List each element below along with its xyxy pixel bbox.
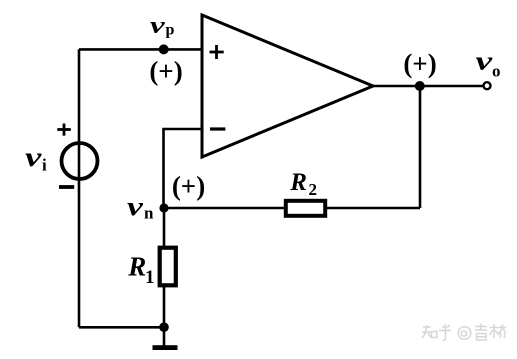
svg-text:R: R bbox=[127, 252, 146, 282]
wire bottom from source to ground node bbox=[79, 326, 164, 329]
watermark zhihu bbox=[422, 324, 506, 341]
svg-text:(+): (+) bbox=[172, 171, 205, 201]
svg-text:(+): (+) bbox=[149, 56, 182, 86]
svg-text:v: v bbox=[476, 46, 493, 75]
resistor R1 bbox=[160, 248, 176, 286]
source + polarity mark bbox=[57, 124, 71, 136]
label vn bbox=[127, 192, 154, 223]
svg-text:(+): (+) bbox=[403, 49, 436, 79]
op-amp - input marker bbox=[210, 127, 225, 130]
svg-text:v: v bbox=[127, 192, 144, 221]
label R1 bbox=[127, 252, 154, 289]
wire top from source to op-amp + input bbox=[79, 48, 202, 51]
node ground junction dot bbox=[159, 322, 169, 332]
ground bbox=[153, 345, 178, 350]
svg-text:2: 2 bbox=[309, 180, 318, 199]
svg-text:v: v bbox=[25, 142, 42, 172]
svg-text:i: i bbox=[42, 156, 47, 175]
op-amp + input marker bbox=[210, 45, 224, 59]
source - polarity mark bbox=[59, 185, 74, 189]
label (+) at vn bbox=[172, 171, 205, 201]
svg-text:p: p bbox=[166, 22, 175, 39]
wire feedback vertical to output node bbox=[419, 86, 422, 208]
resistor R2 bbox=[286, 201, 325, 216]
svg-text:R: R bbox=[289, 169, 307, 196]
svg-text:n: n bbox=[144, 204, 154, 223]
label (+) at vp bbox=[149, 56, 182, 86]
op-amp U1 bbox=[202, 15, 373, 157]
wire left vertical through source bbox=[78, 49, 81, 327]
wire vn down to R1 top bbox=[163, 208, 166, 246]
svg-text:1: 1 bbox=[145, 267, 155, 288]
node vp junction dot bbox=[159, 44, 169, 54]
wire inverting input from op-amp to vn bbox=[164, 129, 203, 208]
node vn junction dot bbox=[159, 203, 168, 212]
wire R1 bottom to ground node bbox=[163, 287, 166, 327]
label vo bbox=[476, 46, 501, 80]
label (+) at output bbox=[403, 49, 436, 79]
source V1 circle bbox=[62, 143, 98, 179]
label R2 bbox=[289, 169, 317, 199]
wire output from op-amp apex to terminal bbox=[373, 85, 484, 88]
label vi bbox=[25, 142, 47, 175]
wire ground stem bbox=[163, 327, 166, 345]
node output junction dot bbox=[415, 81, 425, 91]
svg-text:v: v bbox=[150, 12, 166, 39]
svg-text:o: o bbox=[492, 62, 501, 81]
wire R2 right to feedback corner bbox=[327, 207, 420, 210]
output terminal open circle bbox=[484, 82, 491, 89]
label vp bbox=[150, 12, 175, 39]
wire vn to R2 left bbox=[164, 207, 284, 210]
